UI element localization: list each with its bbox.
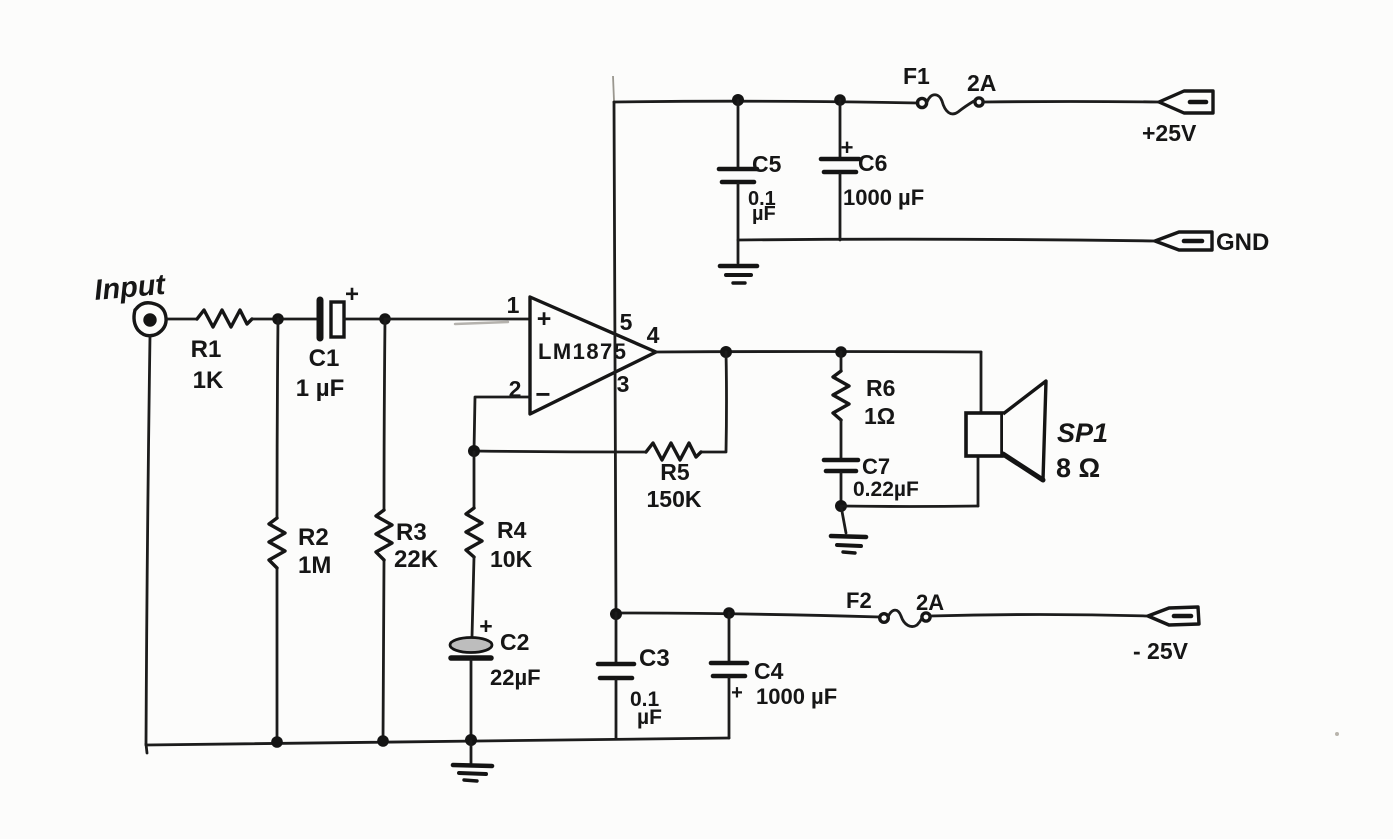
- node B junction: [379, 313, 391, 325]
- wire fuse F2 to -25V terminal: [930, 615, 1148, 617]
- inverting node junction: [468, 445, 480, 457]
- junction C3 on -25V rail: [610, 608, 622, 620]
- svg-text:1000 µF: 1000 µF: [756, 684, 837, 709]
- junction below C7: [835, 500, 847, 512]
- wire junction to speaker bottom: [841, 505, 978, 508]
- svg-text:R1: R1: [191, 336, 222, 363]
- GND rail wire: [738, 239, 1156, 241]
- wire node B to op-amp pin 1: [385, 318, 530, 321]
- wire jack down left side: [146, 336, 150, 744]
- wire jack to R1: [167, 318, 197, 321]
- svg-text:LM1875: LM1875: [538, 339, 626, 364]
- svg-text:R3: R3: [396, 519, 427, 546]
- wire R1 to node A: [252, 318, 318, 321]
- wire node B down to bottom rail: [384, 319, 385, 510]
- resistor R6: [833, 352, 895, 458]
- svg-text:C6: C6: [858, 150, 887, 176]
- junction C4 on -25V rail: [723, 607, 735, 619]
- bottom rail wire: [146, 738, 729, 745]
- +25V terminal: [1142, 91, 1213, 146]
- svg-text:µF: µF: [637, 706, 662, 729]
- svg-text:C5: C5: [752, 151, 782, 177]
- negative -25V rail wire: [616, 613, 880, 617]
- wire node A down to bottom rail: [277, 319, 278, 518]
- svg-text:Input: Input: [93, 269, 168, 307]
- GND terminal: [1155, 229, 1269, 256]
- input jack J1: [134, 303, 166, 336]
- svg-text:150K: 150K: [647, 486, 702, 512]
- svg-text:SP1: SP1: [1057, 418, 1108, 448]
- svg-text:1Ω: 1Ω: [864, 403, 895, 429]
- svg-text:F1: F1: [903, 63, 930, 89]
- junction node C5: [732, 94, 744, 106]
- svg-text:C3: C3: [639, 645, 670, 672]
- svg-text:0.22µF: 0.22µF: [853, 478, 919, 501]
- capacitor C1: [296, 281, 359, 402]
- paper speck: [1335, 732, 1339, 736]
- bottom junction R2: [271, 736, 283, 748]
- svg-text:GND: GND: [1216, 229, 1269, 256]
- speaker SP1: [966, 352, 1108, 506]
- svg-text:8 Ω: 8 Ω: [1056, 453, 1100, 483]
- svg-text:R5: R5: [660, 459, 690, 485]
- resistor R2: [269, 518, 331, 579]
- resistor R4: [466, 452, 533, 637]
- junction node C6: [834, 94, 846, 106]
- svg-text:C4: C4: [754, 658, 784, 684]
- bottom junction C2/ground: [465, 734, 477, 746]
- svg-text:5: 5: [620, 309, 633, 335]
- capacitor C2: [450, 613, 541, 741]
- input label "Input": [93, 269, 168, 307]
- faint overshoot above rail corner: [613, 76, 614, 101]
- svg-text:F2: F2: [846, 588, 872, 613]
- svg-text:1: 1: [507, 292, 520, 318]
- bottom junction R3: [377, 735, 389, 747]
- wire inverting node up to pin 2: [474, 397, 530, 451]
- svg-text:+: +: [731, 682, 743, 704]
- ground under bottom rail: [453, 741, 492, 781]
- pen smudge near pin 1: [455, 322, 508, 324]
- svg-text:+: +: [537, 305, 552, 333]
- capacitor C4: [711, 613, 837, 738]
- capacitor C7: [824, 454, 919, 506]
- svg-text:22K: 22K: [394, 546, 439, 573]
- svg-text:3: 3: [617, 371, 630, 397]
- supply rail vertical wire pins 5 and 3: [614, 102, 616, 613]
- svg-text:4: 4: [647, 322, 660, 348]
- node A junction: [272, 313, 284, 325]
- ground under C7 junction: [831, 506, 866, 553]
- op-amp U1 LM1875: [507, 292, 660, 414]
- svg-text:2A: 2A: [916, 590, 944, 615]
- wire fuse F1 to +25V terminal: [984, 100, 1159, 103]
- svg-text:+25V: +25V: [1142, 120, 1197, 146]
- ground under C5: [720, 266, 757, 283]
- output wire from pin 4: [656, 350, 981, 353]
- resistor R3: [376, 510, 439, 573]
- -25V terminal: [1133, 607, 1199, 664]
- svg-text:µF: µF: [752, 203, 776, 225]
- junction at R6 branch: [835, 346, 847, 358]
- svg-text:10K: 10K: [490, 546, 533, 572]
- svg-text:R4: R4: [497, 517, 527, 543]
- svg-text:R6: R6: [866, 375, 895, 401]
- svg-text:C7: C7: [862, 454, 890, 479]
- svg-text:+: +: [841, 135, 854, 160]
- capacitor C5: [719, 100, 782, 263]
- svg-text:1 µF: 1 µF: [296, 375, 345, 402]
- wire C1 to node B: [344, 318, 385, 321]
- svg-text:−: −: [535, 379, 550, 409]
- svg-text:+: +: [345, 281, 359, 308]
- top +25V rail wire: [614, 101, 918, 103]
- feedback wire R5 to inverting node: [474, 451, 646, 452]
- svg-text:+: +: [479, 613, 492, 639]
- output node junction: [720, 346, 732, 358]
- svg-text:C2: C2: [500, 629, 529, 655]
- svg-text:C1: C1: [309, 345, 340, 372]
- fuse F1: [903, 63, 996, 114]
- capacitor C6: [821, 100, 924, 240]
- svg-text:R2: R2: [298, 524, 329, 551]
- svg-text:- 25V: - 25V: [1133, 638, 1189, 664]
- svg-text:1K: 1K: [193, 367, 224, 394]
- fuse F2: [846, 588, 944, 627]
- svg-text:2A: 2A: [967, 70, 996, 96]
- resistor R5: [646, 443, 702, 512]
- feedback wire output to R5: [701, 352, 727, 452]
- svg-text:22µF: 22µF: [490, 665, 541, 690]
- resistor R1: [191, 310, 252, 394]
- capacitor C3: [598, 613, 670, 739]
- svg-text:1M: 1M: [298, 552, 331, 579]
- svg-text:1000 µF: 1000 µF: [843, 185, 924, 210]
